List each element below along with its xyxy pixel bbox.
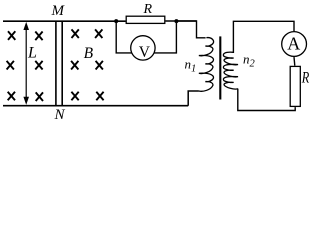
transformer core — [219, 36, 221, 99]
svg-text:R: R — [143, 2, 153, 17]
svg-text:V: V — [139, 44, 151, 61]
junction node a — [114, 19, 118, 23]
svg-text:A: A — [287, 34, 300, 54]
field cross 3 — [7, 61, 14, 70]
conducting rod MN (right line) — [61, 21, 63, 106]
field cross 8 — [95, 29, 102, 38]
wire voltmeter left riser — [116, 21, 131, 53]
field cross 7 — [72, 29, 79, 38]
wire secondary top — [233, 21, 294, 53]
wire ammeter to resistor — [293, 57, 296, 66]
field cross 9 — [71, 61, 78, 70]
field cross 10 — [96, 61, 103, 70]
wire top rail — [3, 20, 126, 22]
svg-text:B: B — [84, 45, 94, 62]
junction node b — [174, 19, 178, 23]
dimension arrow L — [23, 22, 29, 105]
svg-text:N: N — [54, 107, 66, 123]
svg-text:M: M — [51, 3, 66, 19]
resistor R2 box — [290, 66, 300, 106]
transformer secondary coil n2 — [223, 52, 238, 89]
field cross 11 — [71, 92, 78, 101]
field cross 5 — [8, 92, 15, 101]
field cross 1 — [8, 31, 15, 40]
wire bottom rail — [3, 105, 188, 107]
wire primary bottom — [188, 91, 199, 106]
svg-text:L: L — [27, 44, 37, 61]
wire to primary coil — [176, 21, 205, 38]
wire secondary bottom — [238, 89, 295, 111]
resistor R1 box — [126, 16, 165, 23]
voltmeter V1 circle — [131, 36, 155, 60]
wire voltmeter right riser — [155, 21, 177, 53]
ammeter A1 circle — [282, 32, 307, 57]
transformer primary coil n1 — [199, 38, 214, 92]
conducting rod MN (left line) — [55, 21, 57, 106]
wire top rail right of resistor — [165, 20, 196, 22]
field cross 6 — [36, 92, 43, 101]
svg-text:R: R — [301, 69, 309, 86]
field cross 12 — [96, 92, 103, 101]
field cross 4 — [35, 61, 42, 70]
field cross 2 — [35, 32, 42, 41]
